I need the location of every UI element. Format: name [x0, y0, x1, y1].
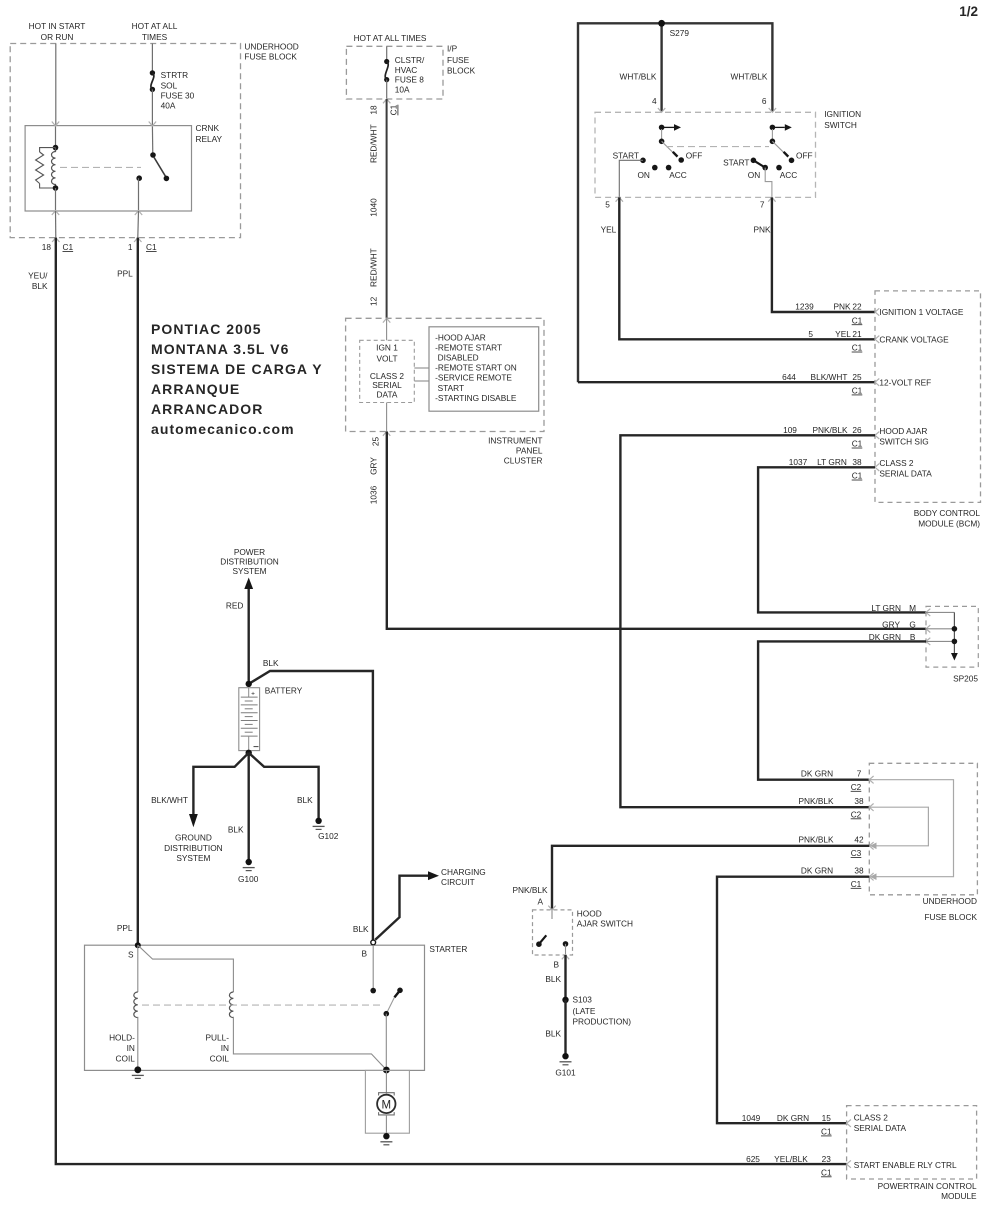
ignition sw1 contacts START ON ACC OFF	[640, 157, 684, 170]
svg-text:C1: C1	[852, 439, 863, 449]
svg-text:12: 12	[369, 296, 379, 306]
svg-text:DK GRN: DK GRN	[777, 1113, 809, 1123]
hood ajar internal stub	[551, 910, 553, 919]
starter box	[85, 945, 425, 1070]
splice S103	[562, 997, 568, 1003]
UHFB internal link pin38C2 to pin42C3	[869, 807, 928, 846]
pull-in coil label	[205, 1033, 229, 1064]
ignition sw1 feed node and direction arrow	[659, 124, 681, 144]
svg-text:M: M	[909, 603, 916, 613]
svg-text:RED/WHT: RED/WHT	[369, 248, 379, 287]
svg-text:C1: C1	[852, 315, 863, 325]
svg-text:BLK/WHT: BLK/WHT	[151, 795, 188, 805]
starter contact left node	[370, 988, 376, 994]
svg-text:START: START	[723, 157, 749, 167]
relay pole node	[136, 175, 142, 181]
svg-text:C1: C1	[821, 1167, 832, 1177]
svg-text:1040: 1040	[369, 198, 379, 217]
svg-text:WHT/BLK: WHT/BLK	[731, 71, 768, 81]
relay coil branch wire	[55, 126, 57, 148]
svg-text:25: 25	[852, 372, 862, 382]
ground distribution system label	[164, 833, 223, 864]
svg-text:I/P: I/P	[447, 44, 458, 54]
svg-text:C1: C1	[852, 386, 863, 396]
feed label HOT AT ALL TIMES (underhood)	[132, 21, 178, 42]
svg-text:C1: C1	[852, 471, 863, 481]
svg-text:DISTRIBUTION: DISTRIBUTION	[164, 843, 223, 853]
fuse value label	[161, 70, 195, 110]
starter ground node	[134, 1066, 141, 1073]
svg-text:26: 26	[852, 425, 862, 435]
ignition sw1 START contact to pin 5	[619, 160, 643, 197]
svg-text:YEU/: YEU/	[28, 271, 48, 281]
svg-text:10A: 10A	[395, 85, 410, 95]
battery B1	[239, 688, 260, 751]
svg-text:ACC: ACC	[669, 170, 687, 180]
connector fork at I/P block bottom	[383, 99, 390, 103]
svg-text:GROUND: GROUND	[175, 833, 212, 843]
instrument panel cluster dashed box	[346, 318, 544, 431]
svg-text:38: 38	[854, 865, 864, 875]
PCM row1 labels: 1049 DK GRN 15 C1 class 2 serial data	[742, 1112, 907, 1136]
ground G101	[560, 1053, 572, 1065]
svg-text:CLSTR/: CLSTR/	[395, 55, 425, 65]
svg-text:S103: S103	[573, 995, 593, 1005]
svg-text:RED: RED	[226, 600, 244, 610]
relay switch lever	[154, 157, 166, 177]
svg-text:6: 6	[762, 96, 767, 106]
svg-text:G: G	[909, 619, 915, 629]
cluster internal wire	[386, 318, 388, 431]
SP205 pin letters M G B	[909, 603, 916, 642]
svg-text:PULL-: PULL-	[205, 1033, 229, 1043]
svg-text:AJAR SWITCH: AJAR SWITCH	[577, 919, 633, 929]
svg-text:G101: G101	[555, 1068, 576, 1078]
svg-text:PANEL: PANEL	[516, 446, 543, 456]
wire: BLK battery neg to G100	[247, 753, 249, 862]
svg-text:1239: 1239	[795, 302, 814, 312]
svg-text:-STARTING DISABLE: -STARTING DISABLE	[435, 393, 517, 403]
wire: HOT IN START feed into crank relay	[55, 44, 57, 126]
svg-text:IGN 1: IGN 1	[376, 343, 398, 353]
svg-text:42: 42	[854, 835, 864, 845]
connector fork at hood ajar A	[548, 906, 555, 910]
pin 18 C1 label	[42, 242, 74, 252]
svg-text:MODULE (BCM): MODULE (BCM)	[918, 519, 980, 529]
wire: BLK battery neg to G102	[249, 753, 319, 821]
BCM row4 labels: 109 PNK/BLK 26 C1 hood ajar switch sig	[783, 425, 929, 449]
pull-in coil winding	[229, 992, 233, 1018]
wire: pull-in coil to motor junction	[233, 1017, 386, 1070]
svg-text:YEL: YEL	[601, 224, 617, 234]
relay lever end node	[164, 176, 170, 182]
motor junction node	[383, 1067, 390, 1074]
connector fork marks at relay box	[52, 122, 156, 216]
relay coil winding	[51, 148, 55, 188]
svg-text:BLOCK: BLOCK	[447, 66, 476, 76]
fuse STRTR SOL FUSE 30 40A	[150, 70, 155, 92]
crank relay box	[25, 126, 191, 211]
svg-text:ON: ON	[748, 170, 760, 180]
wire: HOT AT ALL TIMES feed to fuse	[151, 44, 153, 73]
svg-text:PNK: PNK	[833, 302, 851, 312]
svg-text:RED/WHT: RED/WHT	[369, 124, 379, 163]
splice pack SP205 dashed box	[926, 606, 978, 667]
UHFB internal link pin7 to pin38C1	[869, 780, 953, 877]
svg-text:LT GRN: LT GRN	[871, 603, 901, 613]
svg-text:BLK: BLK	[228, 825, 244, 835]
hood ajar switch dashed box	[533, 910, 573, 955]
svg-text:HOT IN START: HOT IN START	[29, 21, 86, 31]
svg-text:B: B	[361, 949, 367, 959]
charging circuit label	[441, 867, 486, 887]
wire: fuse to relay box	[151, 89, 153, 125]
svg-text:38: 38	[854, 796, 864, 806]
ignition sw2 ON contact to pin 7	[765, 168, 772, 198]
wire: DK GRN SP205 pin B to UHFB pin7 C2	[758, 641, 926, 779]
fuse value label	[395, 55, 425, 95]
crank relay label	[196, 123, 223, 144]
battery positive node	[246, 681, 252, 687]
connector fork at hood ajar B	[562, 955, 569, 959]
svg-text:SYSTEM: SYSTEM	[176, 853, 210, 863]
svg-text:GRY: GRY	[882, 619, 900, 629]
starter contact feed from B	[372, 945, 374, 991]
svg-text:SISTEMA DE CARGA Y: SISTEMA DE CARGA Y	[151, 361, 323, 377]
svg-text:BLK: BLK	[353, 924, 369, 934]
ignition sw2 contacts START ON ACC OFF	[751, 158, 795, 171]
svg-text:DK GRN: DK GRN	[801, 865, 833, 875]
ignition sw2 position labels	[723, 150, 813, 179]
svg-text:1/2: 1/2	[959, 4, 978, 19]
svg-text:GRY: GRY	[369, 457, 379, 475]
svg-text:G102: G102	[318, 831, 339, 841]
svg-text:1036: 1036	[369, 485, 379, 504]
motor top terminal bracket	[379, 1093, 395, 1096]
connector forks at ignition box top	[658, 108, 776, 112]
svg-text:WHT/BLK: WHT/BLK	[620, 71, 657, 81]
SP205 wire colour labels	[869, 603, 901, 642]
ignition sw1 lever (to OFF)	[662, 141, 678, 156]
svg-text:CLUSTER: CLUSTER	[504, 456, 543, 466]
svg-text:S279: S279	[670, 28, 690, 38]
wire: relay pole to pin 1	[138, 178, 140, 211]
UHFB row3 labels: PNK/BLK 42 C3	[798, 835, 864, 859]
svg-text:PNK/BLK: PNK/BLK	[798, 796, 834, 806]
connector fork at cluster bottom	[383, 432, 390, 436]
connector forks at BCM pins	[875, 308, 879, 471]
svg-text:18: 18	[42, 242, 52, 252]
starter switch pole node	[384, 1011, 390, 1017]
svg-text:HOLD-: HOLD-	[109, 1033, 135, 1043]
BCM label	[914, 508, 981, 529]
svg-text:C2: C2	[851, 809, 862, 819]
relay coil bottom node	[53, 185, 59, 191]
body control module dashed box	[875, 291, 981, 503]
wire: coil to pin 18	[55, 188, 57, 211]
svg-text:UNDERHOOD: UNDERHOOD	[244, 42, 298, 52]
svg-text:POWERTRAIN CONTROL: POWERTRAIN CONTROL	[878, 1181, 977, 1191]
svg-text:OR RUN: OR RUN	[41, 32, 74, 42]
hood ajar switch contacts	[536, 935, 568, 955]
svg-text:C1: C1	[821, 1127, 832, 1137]
wire: PNK/BLK UHFB pin42 to hood ajar switch A	[552, 846, 869, 910]
wire: feed to clstr fuse	[386, 46, 388, 61]
svg-text:VOLT: VOLT	[376, 354, 397, 364]
wire: S279 to ignition pin 4	[660, 23, 662, 111]
cluster message list	[435, 332, 517, 403]
wire: charging circuit branch (arrow right)	[375, 876, 428, 940]
feed label HOT IN START OR RUN	[29, 21, 86, 42]
svg-text:21: 21	[852, 329, 862, 339]
pin 1 C1 label	[128, 242, 157, 252]
svg-text:FUSE 30: FUSE 30	[161, 91, 195, 101]
svg-text:ON: ON	[637, 170, 649, 180]
motor bottom terminal bracket	[379, 1112, 395, 1115]
svg-text:ARRANCADOR: ARRANCADOR	[151, 401, 263, 417]
hold-in coil label	[109, 1033, 135, 1064]
ignition sw1 position labels	[613, 150, 703, 179]
connector fork at cluster top	[383, 318, 390, 322]
svg-text:12-VOLT REF: 12-VOLT REF	[879, 377, 931, 387]
svg-text:LT GRN: LT GRN	[817, 457, 847, 467]
splice node S279	[658, 20, 665, 27]
starter solenoid dashed link	[142, 1004, 381, 1006]
svg-text:DISABLED: DISABLED	[438, 353, 479, 363]
relay coil top node	[53, 145, 59, 151]
svg-text:DATA: DATA	[377, 390, 398, 400]
svg-text:CLASS 2: CLASS 2	[879, 458, 914, 468]
svg-text:PPL: PPL	[117, 923, 133, 933]
wire: RED battery positive to power distribution (arrow up)	[247, 585, 249, 684]
cluster IGN1/CLASS2 inner dashed box	[360, 340, 415, 402]
svg-text:CRANK VOLTAGE: CRANK VOLTAGE	[879, 335, 949, 345]
svg-text:PNK/BLK: PNK/BLK	[812, 425, 848, 435]
svg-text:B: B	[553, 960, 559, 970]
svg-text:-HOOD AJAR: -HOOD AJAR	[435, 332, 486, 342]
svg-text:15: 15	[822, 1113, 832, 1123]
ignition switch dashed box	[595, 112, 816, 197]
svg-text:7: 7	[857, 768, 862, 778]
svg-text:S: S	[128, 950, 134, 960]
svg-text:40A: 40A	[161, 101, 176, 111]
svg-text:OFF: OFF	[686, 150, 703, 160]
svg-text:FUSE BLOCK: FUSE BLOCK	[244, 52, 297, 62]
svg-text:COIL: COIL	[210, 1053, 230, 1063]
svg-text:IN: IN	[221, 1043, 229, 1053]
wire: BLK/WHT battery neg to ground distribution (arrow down)	[193, 753, 248, 818]
connector forks at UHFB pins	[869, 776, 873, 880]
splice S279 wire	[578, 23, 772, 382]
svg-text:C2: C2	[851, 782, 862, 792]
svg-text:HOT AT ALL TIMES: HOT AT ALL TIMES	[354, 33, 427, 43]
I/P fuse block label	[447, 44, 476, 76]
UHFB row4 labels: DK GRN 38 C1	[801, 865, 864, 889]
motor sub-box	[365, 1070, 409, 1133]
relay actuation dashed link	[60, 166, 141, 168]
SP205 internal bus	[926, 612, 958, 660]
svg-text:C1: C1	[852, 343, 863, 353]
svg-text:RELAY: RELAY	[196, 134, 223, 144]
svg-text:MONTANA 3.5L V6: MONTANA 3.5L V6	[151, 341, 289, 357]
starter terminal B connector circle	[371, 940, 376, 945]
svg-text:HOT AT ALL: HOT AT ALL	[132, 21, 178, 31]
svg-text:BLK: BLK	[297, 795, 313, 805]
svg-text:PNK: PNK	[754, 224, 772, 234]
motor ground marks	[380, 1142, 392, 1145]
hood ajar switch label	[577, 909, 633, 929]
svg-text:BLK: BLK	[545, 1029, 561, 1039]
connector forks at SP205 pins	[926, 609, 930, 645]
svg-text:CRNK: CRNK	[196, 123, 220, 133]
svg-text:YEL/BLK: YEL/BLK	[774, 1154, 808, 1164]
svg-text:C1: C1	[851, 879, 862, 889]
svg-text:ACC: ACC	[780, 170, 798, 180]
starter terminal S node	[135, 942, 141, 948]
I/P fuse block dashed box	[346, 46, 443, 99]
svg-text:1037: 1037	[789, 457, 808, 467]
svg-text:OFF: OFF	[796, 150, 813, 160]
wire: BLK/WHT S279 branch to BCM 12-volt ref	[578, 381, 875, 383]
svg-text:HOOD: HOOD	[577, 909, 602, 919]
svg-text:+: +	[251, 690, 255, 697]
svg-text:MODULE: MODULE	[941, 1191, 977, 1201]
wire: pole to motor junction	[385, 1014, 387, 1070]
svg-text:1049: 1049	[742, 1113, 761, 1123]
svg-text:4: 4	[652, 96, 657, 106]
svg-text:644: 644	[782, 372, 796, 382]
svg-text:7: 7	[760, 200, 765, 210]
svg-text:STRTR: STRTR	[161, 70, 189, 80]
svg-text:-SERVICE REMOTE: -SERVICE REMOTE	[435, 373, 512, 383]
ignition sw2 feed node and direction arrow	[770, 124, 792, 144]
svg-text:PNK/BLK: PNK/BLK	[798, 835, 834, 845]
svg-text:CIRCUIT: CIRCUIT	[441, 877, 475, 887]
svg-text:PONTIAC 2005: PONTIAC 2005	[151, 321, 262, 337]
svg-text:HOOD AJAR: HOOD AJAR	[879, 426, 927, 436]
wire: PPL pin1 down to starter S	[137, 238, 139, 946]
svg-text:FUSE: FUSE	[447, 55, 470, 65]
BCM row3 labels: 644 BLK/WHT 25 C1 12-volt ref	[782, 372, 931, 396]
powertrain control module dashed box	[847, 1106, 977, 1179]
wire: YEU/BLK pin18 down-left side to PCM row (start enable)	[56, 238, 847, 1165]
svg-text:DK GRN: DK GRN	[801, 768, 833, 778]
wire: YEL ign pin5 to BCM crank voltage	[619, 197, 875, 339]
wire: junction to motor	[385, 1070, 387, 1093]
svg-text:625: 625	[746, 1154, 760, 1164]
S103 label	[573, 995, 632, 1027]
starter contact right node	[397, 988, 403, 994]
svg-text:HVAC: HVAC	[395, 65, 417, 75]
wire YEU/BLK label	[28, 271, 48, 291]
svg-text:-REMOTE START: -REMOTE START	[435, 342, 502, 352]
underhood fuse block (top) dashed box	[10, 44, 240, 238]
svg-text:BLK/WHT: BLK/WHT	[811, 372, 848, 382]
wire: PNK/BLK BCM pin26 to underhood fuse block pin38 C2	[620, 435, 875, 807]
svg-text:SP205: SP205	[953, 674, 978, 684]
svg-text:IN: IN	[127, 1043, 135, 1053]
svg-text:BLK: BLK	[32, 281, 48, 291]
fuse CLSTR/HVAC FUSE 8 10A	[384, 59, 389, 82]
ignition sw2 lever (to OFF)	[772, 141, 788, 156]
svg-text:DISTRIBUTION: DISTRIBUTION	[220, 556, 279, 566]
connector forks at PCM pins	[847, 1120, 851, 1168]
svg-text:BLK: BLK	[263, 658, 279, 668]
cluster message stubs	[414, 367, 429, 369]
svg-text:automecanico.com: automecanico.com	[151, 421, 295, 437]
battery negative node	[246, 750, 252, 756]
svg-text:SERIAL DATA: SERIAL DATA	[879, 468, 932, 478]
motor ground node	[383, 1133, 389, 1139]
wire: DK GRN UHFB pin38C1 to PCM class2	[717, 877, 869, 1123]
ignition sw2 bridge START-ON	[753, 160, 765, 167]
svg-text:C1: C1	[146, 242, 157, 252]
svg-text:BODY CONTROL: BODY CONTROL	[914, 508, 981, 518]
svg-text:1: 1	[128, 242, 133, 252]
svg-text:5: 5	[605, 200, 610, 210]
UHFB row2 labels: PNK/BLK 38 C2	[798, 796, 864, 820]
svg-text:-REMOTE START ON: -REMOTE START ON	[435, 363, 517, 373]
svg-text:START: START	[438, 383, 464, 393]
svg-text:PPL: PPL	[117, 268, 133, 278]
svg-text:SYSTEM: SYSTEM	[232, 566, 266, 576]
svg-text:COIL: COIL	[116, 1053, 136, 1063]
instrument panel cluster label	[488, 436, 543, 466]
svg-text:109: 109	[783, 425, 797, 435]
wire: fuse to block edge	[386, 80, 388, 99]
svg-text:STARTER: STARTER	[429, 944, 467, 954]
svg-text:SERIAL DATA: SERIAL DATA	[854, 1123, 907, 1133]
svg-text:YEL: YEL	[835, 329, 851, 339]
underhood fuse block label	[244, 42, 298, 62]
svg-text:5: 5	[808, 329, 813, 339]
svg-text:22: 22	[852, 302, 862, 312]
title block	[151, 321, 323, 437]
wire: BLK hood ajar B to S103	[564, 955, 566, 1000]
svg-text:SOL: SOL	[161, 80, 178, 90]
svg-text:TIMES: TIMES	[142, 32, 168, 42]
svg-text:M: M	[382, 1099, 392, 1111]
mechanical link between switches (dashed)	[666, 146, 769, 148]
svg-text:SWITCH SIG: SWITCH SIG	[879, 436, 928, 446]
UHFB row1 labels: DK GRN 7 C2	[801, 768, 862, 792]
wire: PNK ign pin7 to BCM ignition 1 voltage	[772, 197, 875, 312]
svg-text:C1: C1	[389, 104, 399, 115]
hold-in coil winding	[134, 992, 138, 1018]
svg-text:C3: C3	[851, 848, 862, 858]
BCM row2 labels: 5 YEL 21 C1 crank voltage	[808, 329, 949, 353]
BCM row1 labels: 1239 PNK 22 C1 ignition 1 voltage	[795, 302, 964, 326]
motor M1	[377, 1095, 395, 1113]
svg-text:IGNITION: IGNITION	[824, 109, 861, 119]
wire: GRY cluster pin25 to SP205 pin G	[387, 432, 926, 629]
wire: hold-in coil to starter ground node	[137, 1017, 139, 1070]
starter: S to hold-in coil wire	[137, 945, 139, 992]
svg-text:PNK/BLK: PNK/BLK	[512, 885, 548, 895]
arrowhead at pin38C1	[870, 873, 877, 880]
BCM row5 labels: 1037 LT GRN 38 C1 class 2 serial data	[789, 457, 933, 481]
svg-text:(LATE: (LATE	[573, 1006, 596, 1016]
svg-text:G100: G100	[238, 874, 259, 884]
svg-text:BATTERY: BATTERY	[265, 685, 303, 695]
svg-text:UNDERHOOD: UNDERHOOD	[923, 896, 977, 906]
svg-text:25: 25	[371, 437, 381, 447]
underhood fuse block (lower) dashed box	[869, 763, 977, 895]
wire stubs through fuse block bottom	[55, 211, 57, 238]
power distribution system label	[220, 547, 279, 576]
svg-text:ARRANQUE: ARRANQUE	[151, 381, 240, 397]
PCM row2 labels: 625 YEL/BLK 23 C1 start enable rly ctrl	[746, 1154, 957, 1178]
